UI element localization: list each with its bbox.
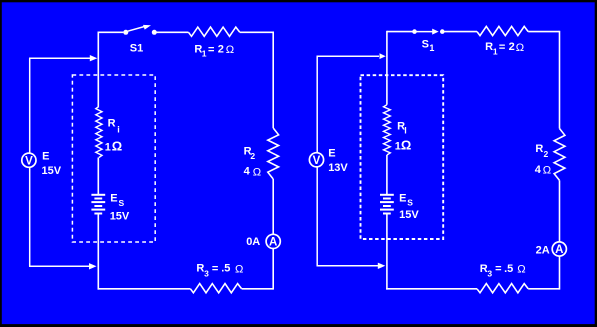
wire: right circuit top segment to switch bbox=[387, 31, 413, 33]
svg-text:4: 4 bbox=[535, 164, 542, 176]
svg-text:15V: 15V bbox=[110, 211, 130, 223]
wire: R2 down through ammeter right circuit bbox=[559, 180, 561, 289]
wire: voltmeter loop bottom with arrow bbox=[29, 265, 90, 267]
voltmeter V bbox=[22, 153, 36, 167]
svg-text:R: R bbox=[535, 143, 543, 155]
switch S1 right terminal bbox=[152, 30, 157, 35]
svg-text:15V: 15V bbox=[399, 209, 419, 221]
switch S1 (closed) left terminal bbox=[412, 29, 417, 34]
svg-text:V: V bbox=[25, 155, 33, 167]
wire: battery to bottom bbox=[97, 214, 99, 290]
wire: branch top down to Ri bbox=[97, 32, 99, 107]
resistor R3 right circuit bbox=[477, 284, 528, 293]
wire: voltmeter loop left side right circuit bbox=[316, 56, 318, 266]
switch S1 closed blade with arrowhead bbox=[416, 31, 433, 33]
svg-text:Ω: Ω bbox=[112, 139, 122, 154]
svg-text:E: E bbox=[42, 151, 49, 163]
svg-text:S: S bbox=[407, 198, 413, 208]
svg-text:1: 1 bbox=[493, 47, 498, 57]
resistor R3 bbox=[190, 284, 241, 293]
wire: right side down to R2 bbox=[272, 32, 274, 129]
svg-text:A: A bbox=[269, 237, 277, 249]
svg-text:E: E bbox=[110, 192, 117, 204]
svg-text:1: 1 bbox=[105, 142, 111, 154]
wire: battery to bottom right circuit bbox=[386, 214, 388, 290]
resistor Ri (internal resistance) bbox=[96, 107, 102, 158]
svg-text:.5: .5 bbox=[504, 263, 513, 275]
switch S1 right terminal bbox=[440, 29, 445, 34]
svg-text:3: 3 bbox=[204, 269, 209, 279]
svg-text:=: = bbox=[212, 263, 218, 275]
resistor R2 right circuit bbox=[554, 129, 565, 181]
switch S1 (open) left terminal bbox=[123, 30, 128, 35]
wire: voltmeter loop left side bbox=[29, 58, 31, 266]
svg-text:E: E bbox=[328, 147, 335, 159]
resistor Ri right circuit bbox=[384, 105, 391, 155]
svg-text:Ω: Ω bbox=[517, 264, 525, 276]
resistor R2 bbox=[268, 128, 279, 179]
svg-text:Ω: Ω bbox=[401, 138, 411, 153]
wire: bottom left segment right circuit bbox=[386, 288, 477, 290]
voltmeter V right circuit bbox=[309, 153, 323, 167]
ammeter A bbox=[266, 234, 280, 248]
resistor R1 right circuit bbox=[477, 26, 528, 35]
svg-text:S: S bbox=[422, 39, 429, 51]
svg-text:E: E bbox=[399, 193, 406, 205]
svg-text:2: 2 bbox=[218, 43, 224, 55]
svg-text:1: 1 bbox=[429, 43, 434, 53]
svg-text:S1: S1 bbox=[130, 42, 143, 54]
svg-text:Ω: Ω bbox=[235, 264, 243, 276]
wire: voltmeter loop top with arrow bbox=[29, 57, 91, 59]
svg-text:Ω: Ω bbox=[253, 166, 261, 178]
dashed source box right bbox=[361, 75, 444, 239]
switch S1 blade with arrowhead bbox=[127, 27, 145, 32]
wire: R1 to top-right corner bbox=[240, 31, 273, 33]
wire: bottom left segment bbox=[98, 288, 191, 290]
svg-text:4: 4 bbox=[244, 166, 251, 178]
battery Es bbox=[91, 194, 105, 196]
svg-text:3: 3 bbox=[487, 269, 492, 279]
svg-text:A: A bbox=[555, 244, 563, 256]
wire: bottom right segment right circuit bbox=[528, 288, 559, 290]
battery Es right circuit bbox=[380, 194, 394, 196]
dashed source box left bbox=[72, 75, 155, 242]
svg-text:Ω: Ω bbox=[543, 165, 551, 177]
wire: switch to R1 right circuit bbox=[445, 31, 478, 33]
svg-text:2: 2 bbox=[509, 41, 515, 53]
svg-text:0A: 0A bbox=[246, 236, 260, 248]
svg-text:13V: 13V bbox=[328, 162, 348, 174]
wire: Ri to battery bbox=[97, 158, 99, 195]
svg-text:2: 2 bbox=[544, 149, 549, 159]
wire: branch top down to Ri right circuit bbox=[386, 31, 388, 105]
svg-text:.5: .5 bbox=[221, 263, 230, 275]
wire: R2 down through ammeter to corner bbox=[272, 179, 274, 290]
svg-text:2: 2 bbox=[250, 151, 255, 161]
ammeter A right circuit bbox=[552, 242, 566, 256]
svg-text:S: S bbox=[119, 198, 125, 208]
resistor R1 bbox=[189, 27, 240, 36]
wire: voltmeter loop top right circuit bbox=[317, 55, 380, 57]
wire: bottom right segment bbox=[242, 288, 274, 290]
svg-text:R: R bbox=[485, 41, 493, 53]
svg-text:=: = bbox=[208, 44, 214, 56]
svg-text:i: i bbox=[117, 125, 120, 135]
wire: voltmeter loop bottom right circuit bbox=[317, 265, 379, 267]
svg-text:l: l bbox=[404, 125, 407, 135]
svg-text:=: = bbox=[499, 42, 505, 54]
svg-text:2A: 2A bbox=[536, 245, 550, 257]
svg-text:Ω: Ω bbox=[516, 42, 524, 54]
wire: R1 to top-right corner right circuit bbox=[528, 31, 559, 33]
wire: left top segment to switch S1 bbox=[98, 31, 123, 33]
svg-text:R: R bbox=[108, 118, 116, 130]
wire: Ri to battery right circuit bbox=[386, 155, 388, 195]
svg-text:=: = bbox=[495, 263, 501, 275]
svg-text:15V: 15V bbox=[42, 165, 62, 177]
svg-text:Ω: Ω bbox=[226, 44, 234, 56]
svg-text:V: V bbox=[313, 155, 321, 167]
wire: right side down to R2 right circuit bbox=[559, 31, 561, 129]
svg-text:1: 1 bbox=[202, 49, 207, 59]
wire: switch to R1 bbox=[157, 31, 189, 33]
